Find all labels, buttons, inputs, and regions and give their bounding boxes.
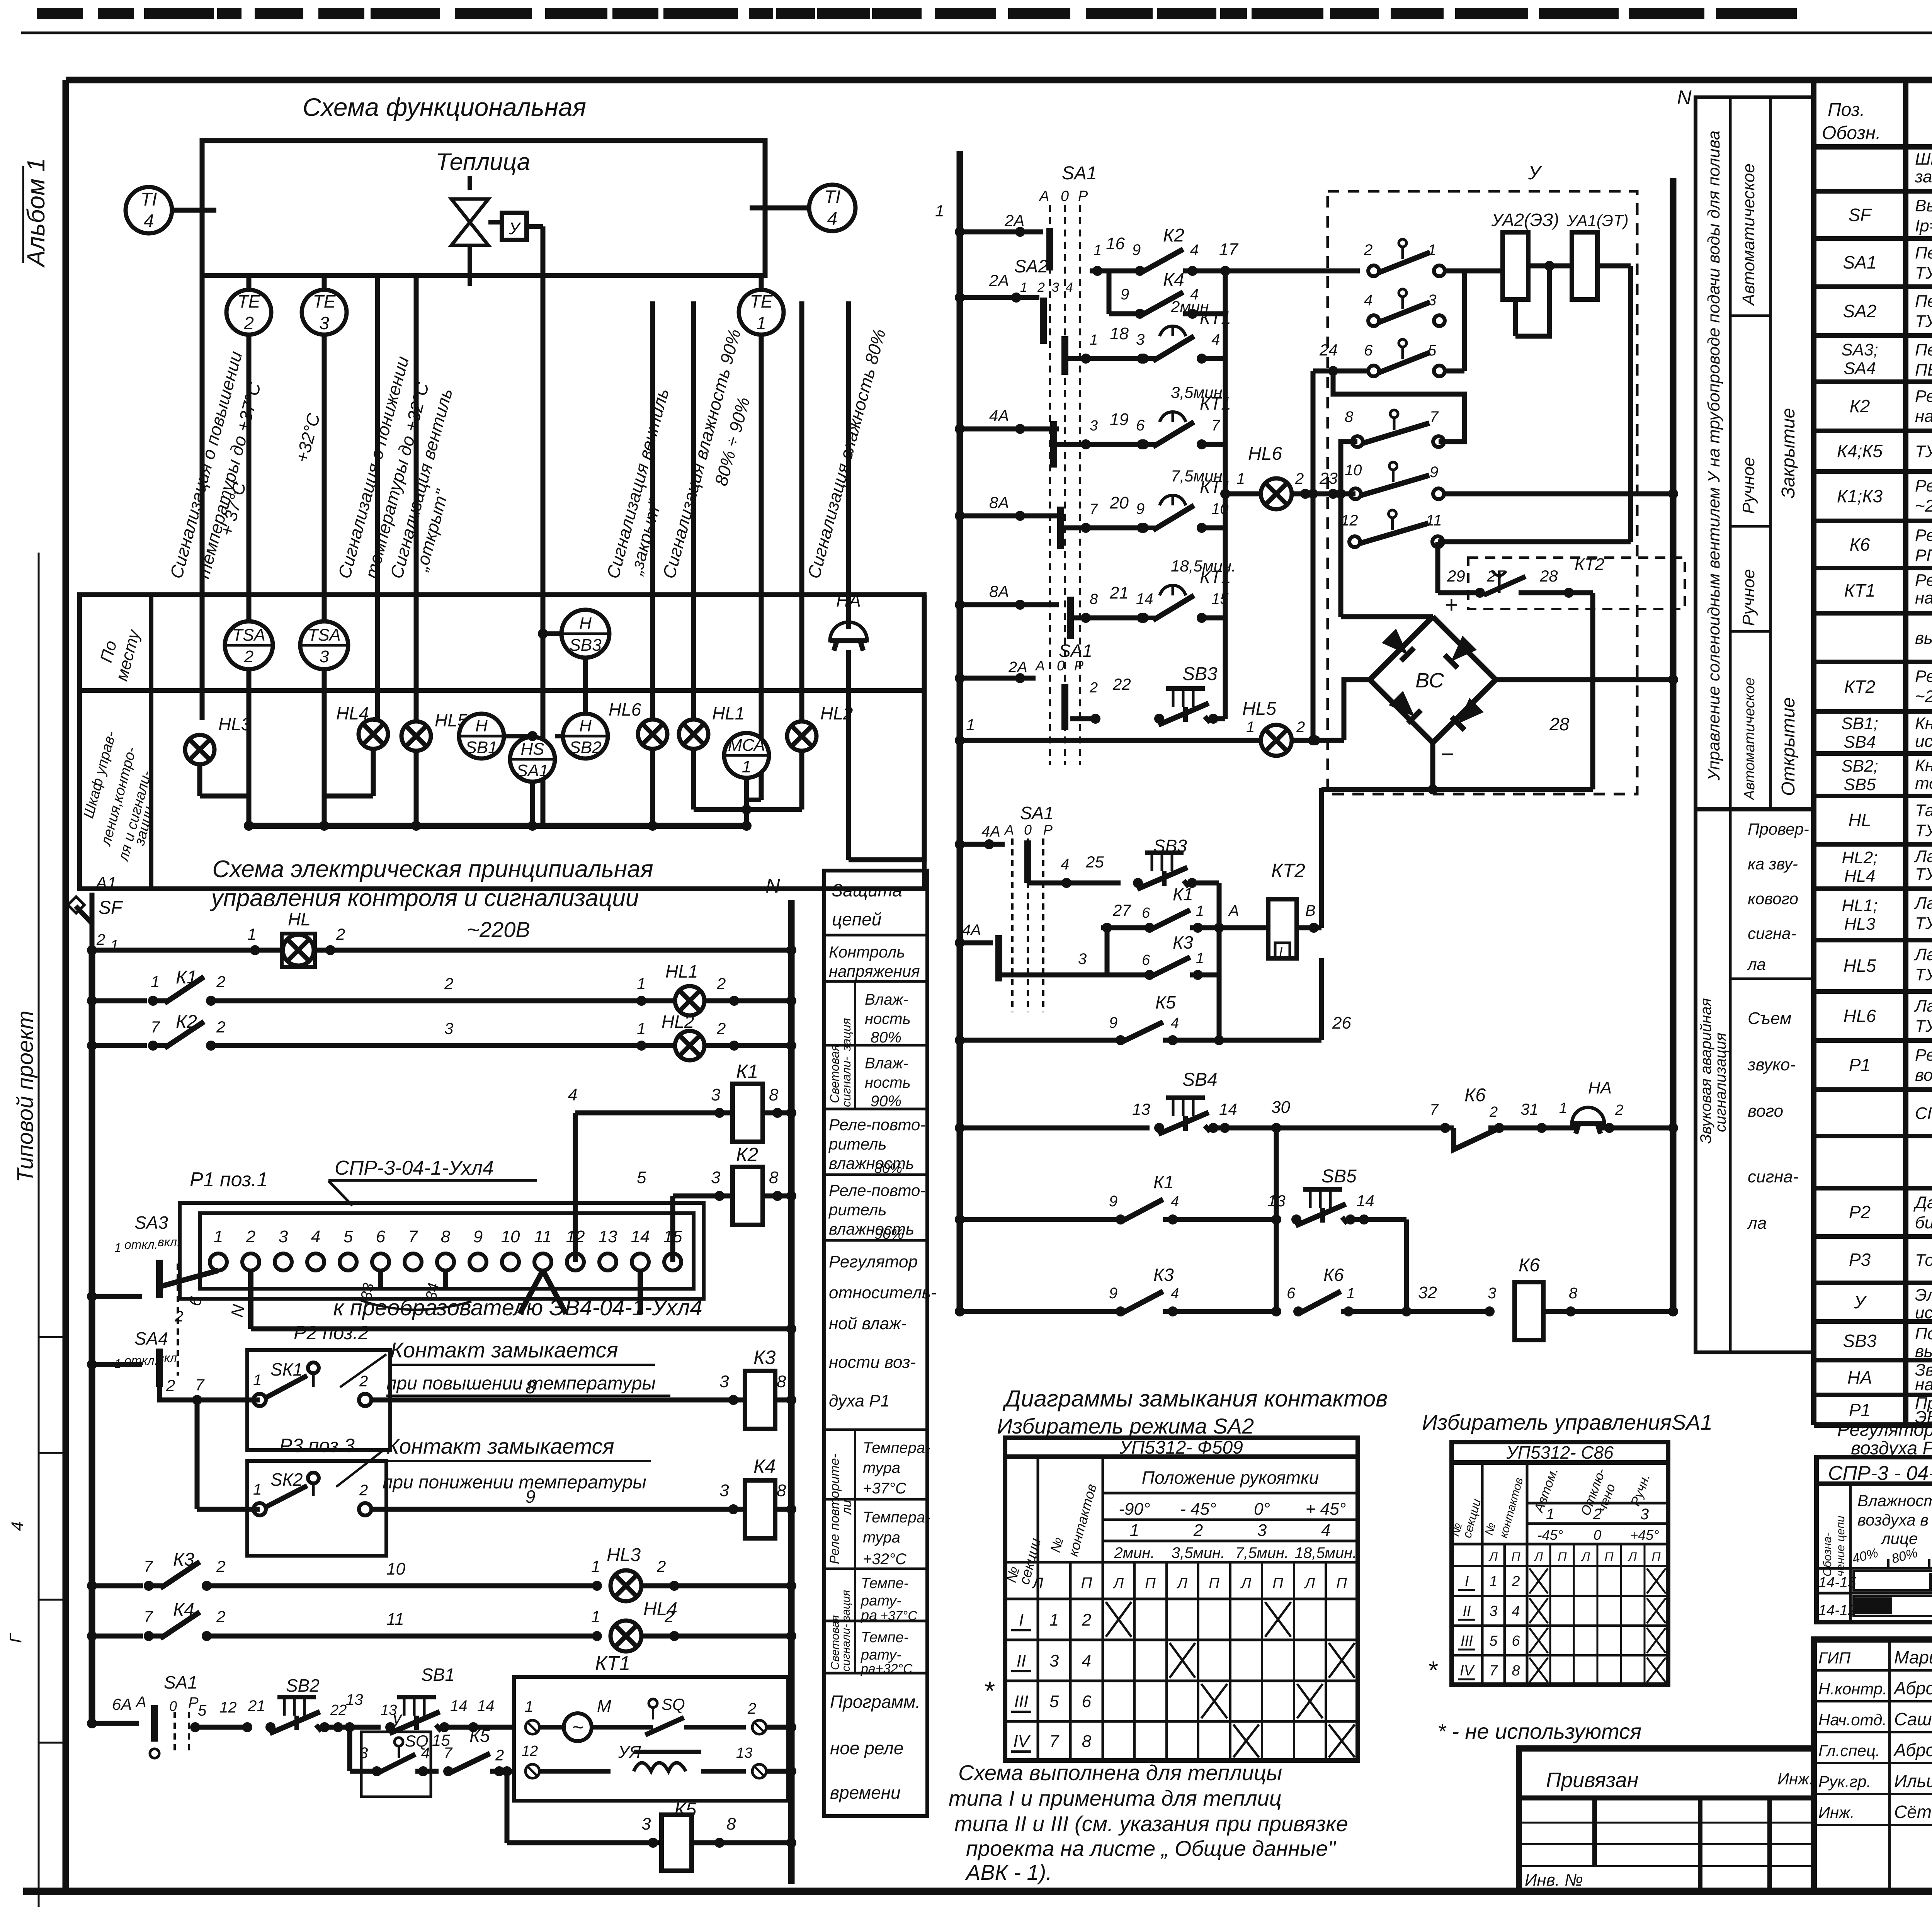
svg-text:2: 2 <box>243 313 254 333</box>
svg-text:1: 1 <box>253 1481 262 1498</box>
svg-text:* - не используются: * - не используются <box>1437 1719 1641 1743</box>
svg-text:1: 1 <box>151 973 160 991</box>
wire middle left bus <box>957 151 963 1311</box>
svg-text:Инж.: Инж. <box>1818 1803 1855 1821</box>
svg-text:HL1: HL1 <box>665 961 698 981</box>
svg-text:4: 4 <box>1061 856 1069 873</box>
svg-text:Контакт замыкается: Контакт замыкается <box>390 1338 618 1362</box>
wire <box>322 276 327 628</box>
svg-text:Л: Л <box>1031 1575 1043 1592</box>
svg-text:5: 5 <box>1489 1633 1498 1649</box>
svg-text:+32°С: +32°С <box>863 1551 907 1568</box>
svg-text:ное реле: ное реле <box>830 1738 903 1758</box>
svg-text:Реле промежуточное с катушкой: Реле промежуточное с катушкой на~220В <box>1915 526 1932 545</box>
svg-text:ритель: ритель <box>828 1201 886 1219</box>
svg-text:Р: Р <box>1074 658 1083 673</box>
svg-text:СПР-3-04-1-Ухл4: СПР-3-04-1-Ухл4 <box>1915 1104 1932 1123</box>
svg-text:14-12: 14-12 <box>1818 1602 1856 1619</box>
svg-text:2: 2 <box>244 647 253 666</box>
svg-text:HL3: HL3 <box>607 1545 641 1565</box>
svg-text:ТУ16-535. 417-75 линза красна: ТУ16-535. 417-75 линза красная <box>1915 914 1932 933</box>
svg-text:10: 10 <box>501 1227 520 1246</box>
svg-text:TE: TE <box>313 291 336 311</box>
svg-text:TSA: TSA <box>308 626 341 645</box>
node table row HL <box>1814 842 1932 847</box>
svg-text:1: 1 <box>214 1227 223 1246</box>
svg-text:+37°С: +37°С <box>863 1480 907 1497</box>
svg-text:31: 31 <box>1520 1100 1539 1118</box>
svg-text:6: 6 <box>1142 952 1150 968</box>
svg-text:К1: К1 <box>736 1061 758 1082</box>
svg-text:К6: К6 <box>1850 534 1870 554</box>
node table row Р2 <box>1814 1234 1932 1239</box>
node table row Аппаратура по мест <box>1814 1186 1932 1190</box>
lamp HL5 <box>401 721 431 751</box>
svg-text:А: А <box>1035 658 1045 673</box>
svg-text:7: 7 <box>1489 1663 1498 1679</box>
svg-text:7: 7 <box>1430 408 1439 425</box>
svg-text:Маричева: Маричева <box>1894 1647 1932 1667</box>
wire <box>66 77 1932 83</box>
svg-text:П: П <box>1604 1550 1614 1564</box>
svg-text:на ~220В ТУ16-739.059-78: на ~220В ТУ16-739.059-78 <box>1915 1375 1932 1394</box>
lamp HL6 <box>638 719 667 749</box>
svg-text:3: 3 <box>1049 1651 1059 1670</box>
svg-text:исп.2 толкатель черный ТУ16.52: исп.2 толкатель черный ТУ16.526.407-79 <box>1915 732 1932 751</box>
lamp HL2 <box>787 721 816 751</box>
svg-text:TSA: TSA <box>232 626 265 645</box>
contact K4 HL4 <box>92 1634 143 1639</box>
svg-text:9: 9 <box>1109 1285 1117 1302</box>
svg-text:Съем: Съем <box>1748 1009 1791 1028</box>
svg-text:+45°: +45° <box>1630 1527 1659 1543</box>
svg-text:АВК - 1).: АВК - 1). <box>965 1860 1052 1884</box>
svg-text:6: 6 <box>1512 1633 1520 1649</box>
lamp HL1 <box>675 986 704 1015</box>
svg-text:SF: SF <box>1849 205 1872 225</box>
svg-text:рату-: рату- <box>861 1647 901 1663</box>
svg-text:К6: К6 <box>1323 1265 1344 1285</box>
svg-text:1: 1 <box>935 202 944 220</box>
svg-text:Г: Г <box>6 1633 25 1643</box>
svg-text:SB3: SB3 <box>569 636 602 655</box>
svg-text:II: II <box>1017 1651 1026 1670</box>
svg-text:4: 4 <box>144 211 154 231</box>
svg-text:8: 8 <box>1082 1732 1092 1751</box>
svg-text:Теплица: Теплица <box>436 149 531 175</box>
svg-text:Типовой проект: Типовой проект <box>13 1010 38 1182</box>
svg-text:при понижении температуры: при понижении температуры <box>383 1472 646 1493</box>
svg-text:3: 3 <box>1488 1285 1496 1302</box>
svg-text:4: 4 <box>1512 1603 1520 1619</box>
svg-text:Реле времени пневматическое с: Реле времени пневматическое с катушкой н… <box>1915 667 1932 686</box>
svg-text:Гл.спец.: Гл.спец. <box>1818 1742 1880 1760</box>
svg-text:ра+32°С: ра+32°С <box>861 1662 913 1676</box>
svg-text:сигнали-: сигнали- <box>839 1056 853 1107</box>
svg-text:0°: 0° <box>1254 1500 1270 1519</box>
svg-text:3: 3 <box>711 1168 721 1187</box>
svg-text:SA1: SA1 <box>164 1672 197 1692</box>
svg-text:*: * <box>983 1676 995 1706</box>
contact K3 HL3 <box>92 1583 143 1588</box>
wire terminal wiring <box>160 1270 218 1287</box>
svg-text:14: 14 <box>477 1697 495 1714</box>
svg-text:4: 4 <box>1211 331 1220 348</box>
wire left bus <box>89 950 95 1723</box>
svg-text:Инв. №: Инв. № <box>1525 1871 1583 1889</box>
instrument H SB3 <box>561 610 609 658</box>
svg-text:1: 1 <box>1347 1286 1355 1302</box>
node table row КТ2 <box>1814 709 1932 714</box>
svg-text:УА2(ЭЗ): УА2(ЭЗ) <box>1491 210 1559 230</box>
svg-text:SQ: SQ <box>662 1695 685 1713</box>
svg-text:SB5: SB5 <box>1321 1166 1357 1187</box>
svg-text:28: 28 <box>1539 567 1558 585</box>
svg-text:H: H <box>579 716 592 735</box>
svg-text:SA4: SA4 <box>1844 359 1876 378</box>
svg-text:Схема выполнена для теплицы: Схема выполнена для теплицы <box>958 1760 1282 1785</box>
svg-text:Контроль: Контроль <box>829 943 905 961</box>
svg-text:Лампа сигнальная ЛС-53 на ~220: Лампа сигнальная ЛС-53 на ~220В <box>1914 945 1932 964</box>
wire bridge connections <box>1341 614 1433 619</box>
svg-text:7: 7 <box>408 1227 418 1246</box>
svg-text:Провер-: Провер- <box>1748 820 1809 838</box>
svg-text:времени: времени <box>830 1782 901 1803</box>
svg-text:кового: кового <box>1748 889 1798 908</box>
svg-text:HL1: HL1 <box>712 703 745 723</box>
svg-text:HL4: HL4 <box>336 703 369 723</box>
node control strip table <box>1696 97 1814 1352</box>
svg-text:А: А <box>1039 188 1049 204</box>
node signature table <box>1814 1639 1932 1891</box>
svg-text:14-15: 14-15 <box>1818 1575 1856 1591</box>
wire <box>759 276 764 800</box>
svg-text:6: 6 <box>1364 342 1373 359</box>
svg-text:К4: К4 <box>1163 270 1184 290</box>
svg-text:Защита: Защита <box>832 880 902 900</box>
svg-text:+37°С: +37°С <box>880 1609 917 1623</box>
svg-text:2: 2 <box>664 1607 673 1626</box>
svg-text:К2: К2 <box>736 1144 758 1165</box>
node table row НА <box>1814 1393 1932 1397</box>
svg-text:П: П <box>1558 1550 1567 1564</box>
svg-text:1: 1 <box>253 1372 262 1389</box>
svg-text:2: 2 <box>1082 1611 1091 1629</box>
svg-text:П: П <box>1336 1575 1347 1592</box>
svg-text:П: П <box>1145 1575 1156 1592</box>
svg-text:III: III <box>1461 1633 1473 1649</box>
svg-text:Поз.: Поз. <box>1828 100 1865 120</box>
svg-text:Iр=4А; Iотс.= 1,3Iн ТУ16-522.: Iр=4А; Iотс.= 1,3Iн ТУ16-522. 110-74 <box>1915 216 1932 235</box>
svg-text:10: 10 <box>1345 462 1362 479</box>
svg-text:Управление соленоидным вентиле: Управление соленоидным вентилем У на тру… <box>1704 131 1723 781</box>
svg-text:I: I <box>1019 1611 1024 1629</box>
svg-text:Л: Л <box>1304 1575 1315 1592</box>
svg-text:3: 3 <box>719 1481 729 1500</box>
svg-text:Л: Л <box>1176 1575 1188 1592</box>
svg-text:К4;К5: К4;К5 <box>1837 441 1883 461</box>
svg-text:1: 1 <box>1090 332 1098 348</box>
svg-text:звуко-: звуко- <box>1747 1055 1796 1074</box>
svg-text:12: 12 <box>219 1699 237 1716</box>
svg-text:4А: 4А <box>989 406 1009 425</box>
svg-text:ТУ16-535.417-75 линза синяя: ТУ16-535.417-75 линза синяя <box>1915 965 1932 984</box>
svg-text:2: 2 <box>747 1700 756 1717</box>
svg-text:SA1: SA1 <box>1843 252 1877 272</box>
svg-text:вый ПКЕ-222-2 ТУ16-526. 216-71: вый ПКЕ-222-2 ТУ16-526. 216-71 <box>1915 1342 1932 1361</box>
svg-text:Влаж-: Влаж- <box>865 991 908 1008</box>
node table row К1;К3 <box>1814 519 1932 523</box>
contact K1 <box>92 998 147 1003</box>
svg-text:30: 30 <box>1271 1098 1290 1117</box>
svg-text:3: 3 <box>1640 1506 1649 1523</box>
svg-text:У: У <box>509 219 521 238</box>
svg-text:2А: 2А <box>1008 659 1027 676</box>
svg-text:Темпе-: Темпе- <box>861 1629 908 1646</box>
svg-text:2: 2 <box>1296 719 1305 736</box>
svg-text:К3: К3 <box>1153 1265 1174 1285</box>
node table row Р3 <box>1814 1281 1932 1285</box>
svg-text:2: 2 <box>359 1373 368 1390</box>
wire <box>38 553 40 1907</box>
svg-text:1: 1 <box>1196 903 1204 919</box>
svg-text:Кнопка управления КЕ-011У3: Кнопка управления КЕ-011У3 <box>1915 714 1932 733</box>
svg-text:воздуха в теп-: воздуха в теп- <box>1857 1511 1932 1529</box>
svg-text:7: 7 <box>444 1745 453 1762</box>
svg-text:1: 1 <box>756 313 766 333</box>
svg-text:3: 3 <box>359 1745 368 1762</box>
svg-text:8: 8 <box>1569 1285 1578 1302</box>
svg-text:Влаж-: Влаж- <box>865 1055 908 1072</box>
svg-text:1: 1 <box>1130 1521 1139 1540</box>
svg-text:Р: Р <box>1078 188 1088 204</box>
svg-text:1: 1 <box>1049 1611 1059 1629</box>
svg-text:Положение рукоятки: Положение рукоятки <box>1142 1468 1319 1488</box>
node table row SF <box>1814 236 1932 241</box>
svg-text:Р: Р <box>188 1694 199 1711</box>
relay coil K5 <box>505 1771 510 1843</box>
wire <box>21 32 1932 34</box>
svg-text:Р1: Р1 <box>1849 1055 1871 1075</box>
wire <box>799 301 804 721</box>
svg-text:П: П <box>1081 1575 1093 1592</box>
svg-text:Р1 поз.1: Р1 поз.1 <box>190 1168 268 1191</box>
wire <box>414 276 419 721</box>
node SPR-3-04-1 table <box>1816 1457 1932 1622</box>
svg-text:П: П <box>1511 1550 1520 1564</box>
svg-text:Реле времени программное ВС-10: Реле времени программное ВС-10-64У4 <box>1915 571 1932 590</box>
svg-text:Электромагнитный привод ЭВ-3М: Электромагнитный привод ЭВ-3М <box>1915 1286 1932 1304</box>
svg-text:*: * <box>1427 1656 1438 1684</box>
svg-text:27: 27 <box>1112 901 1131 919</box>
svg-text:7: 7 <box>1049 1732 1060 1751</box>
svg-text:2: 2 <box>1593 1506 1602 1523</box>
svg-text:14: 14 <box>631 1227 650 1246</box>
wire N bus <box>788 900 795 1884</box>
svg-text:ла: ла <box>1747 955 1766 973</box>
svg-text:~: ~ <box>572 1716 583 1738</box>
svg-text:биметаллический типа ДТКБ-46,и: биметаллический типа ДТКБ-46,исп.тропиче… <box>1915 1213 1932 1232</box>
wire <box>375 276 380 719</box>
wire <box>846 301 851 629</box>
svg-text:14: 14 <box>1219 1100 1237 1118</box>
node U bypass SQ <box>347 1727 352 1771</box>
svg-text:4: 4 <box>1364 292 1372 309</box>
svg-text:зация: зация <box>839 1018 853 1052</box>
instrument TI4 left <box>126 187 172 233</box>
wire <box>750 206 809 211</box>
svg-text:воздуха трехпозиционный типа: воздуха трехпозиционный типа <box>1915 1066 1932 1085</box>
svg-text:14: 14 <box>1136 590 1153 607</box>
svg-text:Сашин: Сашин <box>1894 1709 1932 1729</box>
svg-text:6: 6 <box>1082 1692 1092 1711</box>
svg-text:HL3: HL3 <box>218 714 251 734</box>
instrument TSA2 <box>225 621 273 669</box>
svg-text:Реле промежуточное с катушкой: Реле промежуточное с катушкой <box>1915 387 1932 406</box>
svg-text:3: 3 <box>719 1372 729 1391</box>
svg-text:4: 4 <box>1082 1651 1091 1670</box>
svg-text:2А: 2А <box>1004 211 1024 230</box>
svg-text:4: 4 <box>1066 280 1073 295</box>
svg-text:HL5: HL5 <box>1844 956 1876 976</box>
svg-text:I: I <box>1465 1573 1469 1590</box>
svg-text:2: 2 <box>1037 280 1045 295</box>
svg-text:Избиратель управленияSA1: Избиратель управленияSA1 <box>1422 1410 1713 1434</box>
svg-text:проекта на листе „ Общие дан: проекта на листе „ Общие данные" <box>966 1836 1336 1861</box>
svg-text:Лампа сигнальная ЛС-53 на ~220: Лампа сигнальная ЛС-53 на ~220В <box>1914 847 1932 866</box>
svg-text:ТУ16-524. 074-75: ТУ16-524. 074-75 <box>1915 264 1932 282</box>
svg-text:4: 4 <box>1171 1015 1179 1031</box>
svg-text:Контакт замыкается: Контакт замыкается <box>386 1434 614 1458</box>
wire <box>197 1507 260 1512</box>
node U solenoid valve dashed box <box>1328 191 1637 794</box>
svg-text:КТ1: КТ1 <box>1844 580 1876 600</box>
valve with actuator U <box>468 176 472 190</box>
svg-text:К6: К6 <box>1519 1255 1540 1276</box>
svg-text:1: 1 <box>742 757 751 776</box>
svg-text:Н.контр.: Н.контр. <box>1818 1680 1887 1698</box>
svg-text:0: 0 <box>169 1698 177 1714</box>
lamp HL4 <box>359 719 388 749</box>
wire <box>172 208 216 213</box>
svg-text:7: 7 <box>1430 1101 1439 1118</box>
svg-text:28: 28 <box>1549 714 1570 734</box>
svg-text:Датчик-реле температуры камерн: Датчик-реле температуры камерный <box>1913 1193 1932 1212</box>
svg-text:24: 24 <box>1319 341 1338 359</box>
svg-text:90%: 90% <box>874 1226 904 1242</box>
svg-text:ка зву-: ка зву- <box>1748 855 1798 873</box>
svg-text:HL6: HL6 <box>609 699 641 719</box>
svg-text:Схема функциональная: Схема функциональная <box>303 93 586 121</box>
svg-text:управления контроля и сигнал: управления контроля и сигнализации <box>210 885 639 912</box>
svg-text:3: 3 <box>641 1815 651 1833</box>
svg-text:90%: 90% <box>871 1093 901 1110</box>
svg-text:А: А <box>135 1694 146 1711</box>
svg-text:5: 5 <box>198 1702 207 1719</box>
svg-text:9: 9 <box>473 1227 483 1246</box>
svg-text:ТУ16-524.074-75: ТУ16-524.074-75 <box>1915 312 1932 331</box>
svg-text:К2: К2 <box>1850 396 1870 416</box>
svg-text:Сётина: Сётина <box>1894 1802 1932 1822</box>
svg-text:Лампа сигнальная ЛС-53 на ~220: Лампа сигнальная ЛС-53 на ~220В <box>1914 894 1932 913</box>
svg-text:Регулятор относительной влажно: Регулятор относительной влажности <box>1915 1046 1932 1065</box>
node table row SB1;|SB4 <box>1814 751 1932 756</box>
svg-text:Р2 поз.2: Р2 поз.2 <box>294 1322 369 1344</box>
svg-text:Реле промежуточное с катушкой: Реле промежуточное с катушкой на <box>1915 476 1932 495</box>
svg-text:П: П <box>1272 1575 1283 1592</box>
svg-text:3: 3 <box>320 647 329 666</box>
svg-text:4: 4 <box>311 1227 320 1246</box>
svg-text:П: П <box>1651 1550 1661 1564</box>
node table row Р1 <box>1814 1087 1932 1092</box>
svg-text:Р1: Р1 <box>1849 1400 1871 1420</box>
svg-text:TI: TI <box>141 189 157 210</box>
svg-text:КТ1: КТ1 <box>595 1652 630 1675</box>
svg-text:4: 4 <box>1171 1194 1179 1210</box>
instrument TE3 <box>302 290 347 335</box>
svg-text:SB4: SB4 <box>1844 733 1876 752</box>
svg-text:HL5: HL5 <box>1242 699 1276 719</box>
svg-text:К4: К4 <box>753 1456 776 1477</box>
svg-text:8: 8 <box>769 1085 779 1104</box>
svg-text:SК1: SК1 <box>270 1359 303 1379</box>
svg-text:2: 2 <box>246 1227 255 1246</box>
svg-text:Рук.гр.: Рук.гр. <box>1818 1772 1871 1791</box>
node SA1 diagram table <box>1452 1442 1668 1685</box>
svg-text:SB2;: SB2; <box>1841 757 1878 776</box>
svg-text:Ильин: Ильин <box>1894 1771 1932 1791</box>
svg-text:SB3: SB3 <box>1843 1331 1877 1351</box>
svg-text:Темпера-: Темпера- <box>863 1509 930 1526</box>
svg-text:Схема электрическая принципи: Схема электрическая принципиальная <box>212 856 653 883</box>
svg-text:32: 32 <box>1418 1283 1437 1302</box>
svg-text:Закрытие: Закрытие <box>1778 408 1799 498</box>
svg-text:−: − <box>1440 741 1454 767</box>
svg-text:РПУ-2-362203У3 ТУ16-523.331-: РПУ-2-362203У3 ТУ16-523.331-78 <box>1915 546 1932 565</box>
svg-text:1: 1 <box>637 1019 646 1037</box>
svg-text:1: 1 <box>637 975 646 993</box>
svg-text:Автоматическое: Автоматическое <box>1742 677 1758 801</box>
svg-text:НА: НА <box>836 590 861 611</box>
svg-text:1: 1 <box>525 1698 533 1715</box>
svg-text:4: 4 <box>568 1085 577 1104</box>
svg-text:22: 22 <box>1112 675 1131 693</box>
svg-text:25: 25 <box>1085 853 1104 871</box>
svg-text:4: 4 <box>827 209 838 229</box>
svg-text:12: 12 <box>1341 512 1358 529</box>
svg-text:0: 0 <box>1594 1527 1601 1543</box>
node table row К6 <box>1814 566 1932 570</box>
svg-text:12: 12 <box>566 1227 585 1246</box>
wire <box>691 301 696 719</box>
svg-text:10: 10 <box>386 1560 405 1578</box>
svg-text:SA2: SA2 <box>1014 256 1048 276</box>
svg-text:7: 7 <box>144 1557 153 1575</box>
svg-text:4А: 4А <box>962 922 981 939</box>
svg-text:ности воз-: ности воз- <box>829 1353 916 1372</box>
svg-text:выдержка времени 1÷30мин; ТУ16: выдержка времени 1÷30мин; ТУ16-523.104-6… <box>1915 629 1932 648</box>
svg-text:5: 5 <box>637 1168 646 1187</box>
svg-text:2: 2 <box>716 975 726 993</box>
svg-text:8: 8 <box>1090 591 1098 607</box>
svg-text:SA3;: SA3; <box>1841 340 1878 359</box>
svg-text:ла: ла <box>1747 1214 1767 1233</box>
node table row Шкаф управления, к <box>1814 189 1932 194</box>
svg-text:16: 16 <box>1106 234 1125 253</box>
svg-text:8: 8 <box>777 1481 786 1500</box>
node table row К4;К5 <box>1814 469 1932 474</box>
svg-text:У: У <box>1854 1292 1867 1312</box>
